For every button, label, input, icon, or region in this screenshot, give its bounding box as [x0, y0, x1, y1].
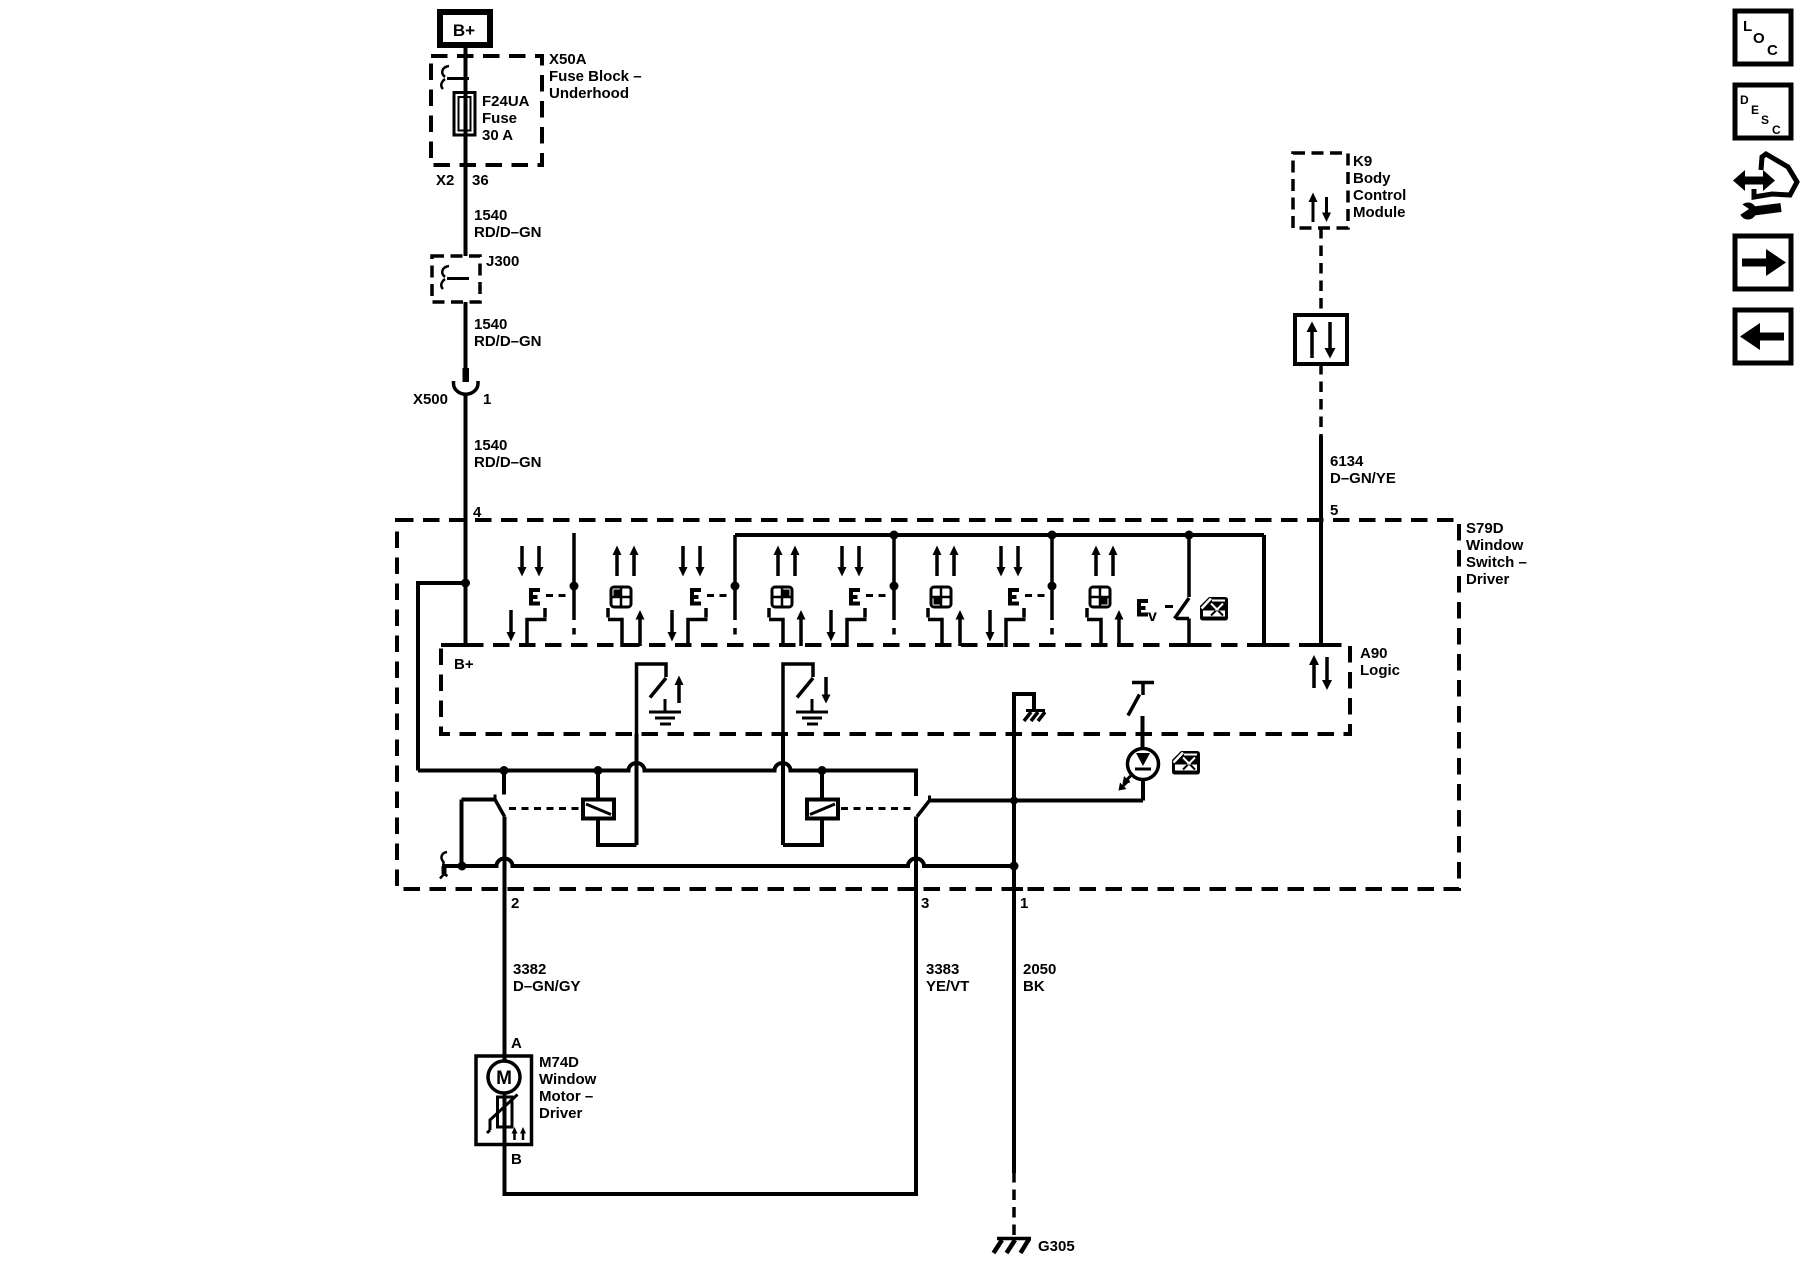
LED emission arrows [1119, 774, 1134, 791]
driver window icon [611, 587, 631, 607]
svg-text:Module: Module [1353, 204, 1406, 221]
X50A Fuse Block - Underhood box [431, 51, 642, 165]
svg-text:1540: 1540 [474, 207, 507, 224]
right rear up contact arrow [1115, 610, 1124, 646]
lockout label Ev [1137, 601, 1157, 625]
window icon (illumination) [1172, 751, 1200, 775]
svg-text:M: M [496, 1068, 512, 1089]
S79D Window Switch - Driver box [397, 520, 1527, 889]
K9 up arrow [1309, 193, 1318, 223]
B+ feed wire to relay bus [418, 583, 466, 771]
svg-text:G305: G305 [1038, 1238, 1075, 1255]
rest line junction node [1010, 797, 1018, 805]
svg-text:E: E [1751, 103, 1759, 117]
svg-text:S: S [1761, 113, 1769, 127]
down relay coil [807, 800, 838, 819]
A90 edge bar at lockout contact [1181, 643, 1198, 647]
driver window down contact [527, 608, 547, 647]
K9 Body Control Module box [1293, 153, 1406, 228]
svg-text:X50A: X50A [549, 51, 587, 68]
up relay coil wire [596, 771, 600, 801]
left rear express-down label E [849, 590, 860, 604]
driver switch rod [572, 533, 576, 635]
svg-text:C: C [1767, 42, 1778, 59]
down driver switch wire [783, 664, 813, 734]
swap/tools navigation icon [1733, 154, 1797, 220]
svg-text:1: 1 [483, 391, 491, 408]
svg-text:YE/VT: YE/VT [926, 978, 969, 995]
terminal 3 labels [921, 895, 969, 995]
down relay coil return loop [783, 818, 822, 846]
svg-text:A: A [511, 1035, 522, 1052]
passenger window up contact [769, 608, 783, 647]
ground bus with hops [442, 859, 1014, 866]
bus junction node [500, 766, 509, 775]
driver express-down label E [529, 590, 540, 604]
svg-text:B: B [511, 1151, 522, 1168]
driver up contact arrow [636, 610, 645, 646]
battery positive B+ terminal [440, 12, 490, 45]
left rear window down arrows [838, 546, 864, 577]
left rear window up arrows [933, 546, 959, 577]
relay contacts rest line [930, 799, 1144, 803]
passenger window down arrows [679, 546, 705, 577]
driver window down arrows [518, 546, 544, 577]
DESC navigation icon [1735, 85, 1791, 138]
terminal 1 ground wire 2050 BK [1014, 734, 1056, 1238]
motor up arrows [512, 1127, 527, 1140]
M74D Window Motor - Driver [476, 1054, 597, 1145]
wire B+ to fuse block [464, 45, 468, 57]
A90 edge bar at B+ entry [457, 643, 475, 647]
bus junction node [594, 766, 603, 775]
ground (logic up switch) [649, 699, 681, 724]
svg-text:D: D [1740, 93, 1749, 107]
svg-text:v: v [1148, 608, 1157, 625]
left rear window down contact [847, 608, 867, 647]
ground bus junction node [458, 862, 467, 871]
lockout link dash [1165, 605, 1173, 608]
wire through fuse [464, 57, 468, 165]
svg-text:X500: X500 [413, 391, 448, 408]
node B / motor return wire [505, 817, 917, 1195]
S79D edge bar at terminal 1 [1006, 887, 1023, 891]
back (left arrow) navigation icon [1735, 310, 1791, 363]
up relay contact rest wire [462, 800, 496, 867]
up relay coil return loop [598, 818, 637, 846]
rod junction node [890, 582, 899, 591]
svg-text:BK: BK [1023, 978, 1045, 995]
up relay contact arm [495, 800, 505, 817]
relay B+ bus with hops [418, 763, 916, 796]
illumination switch bar [1132, 683, 1154, 696]
dashed wire K9 to connector [1319, 228, 1323, 315]
dashed wire connector to 6134 [1319, 364, 1323, 436]
svg-text:36: 36 [472, 172, 489, 189]
up driver switch wire [637, 664, 667, 734]
svg-text:1540: 1540 [474, 316, 507, 333]
K9 down arrow [1322, 197, 1331, 222]
passenger window up arrows [774, 546, 800, 577]
left rear down contact arrow [827, 610, 836, 642]
svg-text:Driver: Driver [1466, 571, 1510, 588]
logic up/down arrows [1309, 655, 1332, 690]
svg-text:M74D: M74D [539, 1054, 579, 1071]
up relay contact stub [502, 771, 506, 795]
right rear window up arrows [1092, 546, 1118, 577]
right rear down contact arrow [986, 610, 995, 642]
left rear up contact arrow [956, 610, 965, 646]
passenger window down contact [688, 608, 708, 647]
ground (logic down switch) [796, 699, 828, 724]
bus junction node [890, 531, 899, 540]
svg-text:L: L [1743, 18, 1752, 35]
lockout switch arm [1175, 598, 1190, 619]
driver window up contact [608, 608, 622, 647]
ground bus end hook [440, 852, 448, 879]
up relay actuating link [509, 807, 581, 810]
svg-text:K9: K9 [1353, 153, 1372, 170]
svg-text:B+: B+ [453, 21, 475, 40]
up driver arrow [675, 676, 684, 704]
left rear window icon [931, 587, 951, 607]
svg-text:D–GN/GY: D–GN/GY [513, 978, 581, 995]
svg-text:RD/D–GN: RD/D–GN [474, 454, 542, 471]
svg-text:A90: A90 [1360, 645, 1388, 662]
internal B+ bus (switch row) [735, 533, 1264, 537]
svg-text:Control: Control [1353, 187, 1406, 204]
svg-text:Underhood: Underhood [549, 85, 629, 102]
svg-text:2050: 2050 [1023, 961, 1056, 978]
passenger down contact arrow [668, 610, 677, 642]
ground G305 [994, 1238, 1075, 1255]
splice J300 [432, 253, 519, 302]
svg-text:3382: 3382 [513, 961, 546, 978]
terminal 2 wire to motor [505, 817, 581, 1062]
svg-text:O: O [1753, 30, 1765, 47]
svg-text:1540: 1540 [474, 437, 507, 454]
right rear window up contact [1087, 608, 1101, 647]
right rear window icon [1090, 587, 1110, 607]
passenger express link [707, 594, 731, 597]
BCM inline connector symbol [1295, 315, 1347, 364]
connector X500 pin 1 [413, 368, 491, 408]
A90 edge bar at bus drop [1256, 643, 1273, 647]
up relay coil [583, 800, 614, 819]
window lockout icon (switch) [1200, 597, 1228, 621]
bus junction node [1048, 531, 1057, 540]
svg-text:2: 2 [511, 895, 519, 912]
right rear express-down label E [1008, 590, 1019, 604]
left rear express link [866, 594, 890, 597]
pin X2 / 36 labels [436, 172, 489, 189]
LOC navigation icon [1735, 11, 1791, 64]
down relay contact arm [917, 801, 930, 817]
svg-text:Window: Window [539, 1071, 597, 1088]
up driver switch arm [650, 678, 666, 698]
svg-text:RD/D–GN: RD/D–GN [474, 224, 542, 241]
svg-text:Fuse: Fuse [482, 110, 517, 127]
down relay contact tip [928, 796, 931, 802]
right rear express link [1025, 594, 1048, 597]
svg-text:30 A: 30 A [482, 127, 513, 144]
svg-text:D–GN/YE: D–GN/YE [1330, 470, 1396, 487]
svg-text:Window: Window [1466, 537, 1524, 554]
left rear switch rod [892, 535, 896, 635]
svg-text:Motor –: Motor – [539, 1088, 593, 1105]
svg-text:Logic: Logic [1360, 662, 1400, 679]
driver down contact arrow [507, 610, 516, 642]
svg-text:RD/D–GN: RD/D–GN [474, 333, 542, 350]
rod junction node [731, 582, 740, 591]
svg-text:C: C [1772, 123, 1781, 137]
svg-text:5: 5 [1330, 502, 1338, 519]
passenger window icon [772, 587, 792, 607]
right rear window down contact [1006, 608, 1026, 647]
svg-text:J300: J300 [486, 253, 519, 270]
svg-text:Driver: Driver [539, 1105, 583, 1122]
passenger express-down label E [690, 590, 701, 604]
rod junction node [1048, 582, 1057, 591]
down relay actuating link [841, 807, 911, 810]
passenger up contact arrow [797, 610, 806, 646]
right rear window down arrows [997, 546, 1023, 577]
lockout switch contact [1176, 619, 1189, 646]
wire 1540 RD/D-GN segment 3 [466, 393, 542, 646]
driver express link [546, 594, 570, 597]
svg-text:1: 1 [1020, 895, 1028, 912]
svg-text:3: 3 [921, 895, 929, 912]
wire 1540 RD/D-GN segment 1 [466, 165, 542, 256]
up driver output wire [635, 734, 639, 845]
bus right drop wire [1262, 535, 1266, 645]
chassis ground (logic) [1014, 694, 1045, 734]
left rear window up contact [928, 608, 942, 647]
up relay contact tip [494, 795, 497, 801]
svg-text:F24UA: F24UA [482, 93, 530, 110]
svg-text:Fuse Block –: Fuse Block – [549, 68, 642, 85]
fuse block terminal hook [441, 66, 469, 89]
next (right arrow) navigation icon [1735, 236, 1791, 289]
junction node B+ feed [461, 579, 470, 588]
fuse F24UA 30A [454, 93, 530, 145]
svg-text:Body: Body [1353, 170, 1391, 187]
A90 edge bar at pin5 entry [1313, 643, 1330, 647]
bus junction node [1185, 531, 1194, 540]
svg-text:B+: B+ [454, 656, 474, 673]
down driver output wire [781, 734, 785, 845]
illumination LED wire [1141, 716, 1145, 749]
svg-text:S79D: S79D [1466, 520, 1504, 537]
down relay coil wire [820, 771, 824, 801]
bus junction node [818, 766, 827, 775]
svg-text:6134: 6134 [1330, 453, 1364, 470]
right rear switch rod [1050, 535, 1054, 635]
down driver switch arm [797, 678, 813, 698]
illumination switch arm [1128, 695, 1140, 716]
ground bus junction node [1010, 862, 1019, 871]
driver window up arrows [613, 546, 639, 577]
wire 1540 RD/D-GN segment 2 [466, 302, 542, 368]
lockout switch feed wire [1187, 535, 1191, 597]
svg-text:X2: X2 [436, 172, 454, 189]
rod junction node [570, 582, 579, 591]
LED (illumination) [1128, 749, 1159, 801]
down driver arrow [822, 677, 831, 704]
A90 Logic box [441, 645, 1400, 734]
wire 6134 D-GN/YE [1321, 436, 1396, 645]
svg-text:3383: 3383 [926, 961, 959, 978]
svg-text:Switch –: Switch – [1466, 554, 1527, 571]
passenger switch rod [733, 535, 737, 635]
